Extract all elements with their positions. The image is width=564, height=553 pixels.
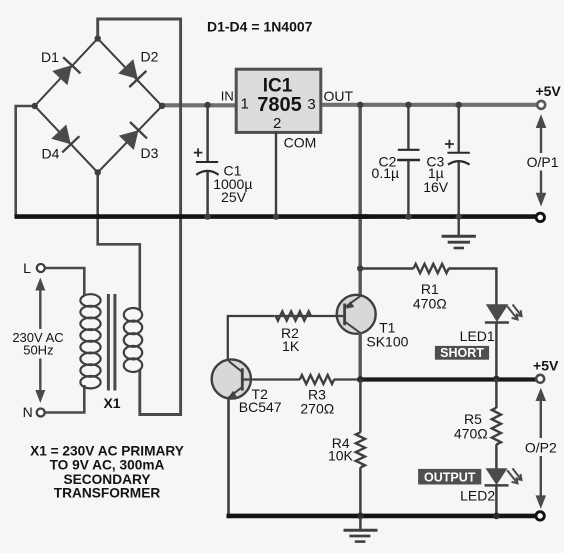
capacitor C1 [194,105,219,217]
svg-text:470Ω: 470Ω [454,426,488,442]
transformer X1 secondary winding [124,308,142,372]
svg-text:TRANSFORMER: TRANSFORMER [54,486,161,501]
terminal O/P2 +5V [536,375,544,383]
svg-text:LED2: LED2 [460,487,495,503]
svg-text:SK100: SK100 [366,334,408,350]
diode D2 [117,58,146,87]
label OUTPUT badge [418,469,481,485]
wire: R4 to bottom rail [359,468,362,517]
label R3 value [300,387,334,417]
wire: AC top from bridge top vertex to transformer line [98,19,181,415]
svg-text:X1: X1 [103,395,120,411]
svg-text:OUT: OUT [324,88,354,104]
svg-text:D4: D4 [42,146,60,162]
svg-text:1: 1 [241,96,249,113]
svg-text:10K: 10K [328,448,354,464]
node: T1 collector / R3 / R4 junction [357,376,364,383]
node: C3 top [456,102,462,108]
wire: O/P2 +5V rail [334,378,361,380]
svg-text:3: 3 [307,96,315,113]
wire: N to primary bottom [45,385,84,413]
wire: R2 left corner down to T2 [228,316,274,361]
node: C2 bottom [405,213,411,219]
svg-text:16V: 16V [423,179,449,195]
label C3 value [423,154,449,195]
arrow O/P1 [536,114,547,206]
node: C1 top [204,102,210,108]
node: C2 top [405,102,411,108]
svg-text:BC547: BC547 [239,399,282,415]
wire: R1 branch horizontal [360,267,413,270]
transformer X1 primary winding [80,294,100,388]
svg-text:COM: COM [284,135,317,151]
svg-text:TO 9V AC, 300mA: TO 9V AC, 300mA [50,458,165,473]
svg-text:IN: IN [221,89,234,104]
svg-text:X1 = 230V AC PRIMARY: X1 = 230V AC PRIMARY [30,443,184,458]
svg-text:LED1: LED1 [460,328,495,344]
label C1 value [213,163,252,206]
resistor R4 [356,432,365,467]
svg-text:1K: 1K [282,338,300,354]
svg-text:D3: D3 [141,145,159,161]
transformer X1 core [107,294,117,391]
wire: T2 emitter down to bottom rail [227,398,230,517]
wire: R4 junction down [359,380,362,433]
node: R4 bottom [357,513,364,520]
bridge rectifier diamond edges [35,39,162,173]
wire: L to primary top [45,268,84,296]
svg-text:D2: D2 [141,48,159,64]
node: bridge left vertex [32,103,38,109]
node: LED1 / R5 junction [493,376,500,383]
capacitor C2 [397,105,420,217]
label SHORT badge [435,346,489,360]
wire: T1 collector down to junction [359,333,362,380]
label 230V AC 50Hz [12,330,63,358]
svg-text:50Hz: 50Hz [23,343,53,358]
transistor T1 SK100 [337,295,376,334]
LED2 [485,468,522,485]
terminal O/P1 ground [536,213,544,221]
resistor R1 [414,264,449,273]
svg-text:O/P1: O/P1 [527,154,559,170]
diode D4 [50,123,79,152]
node: bridge bottom vertex [95,169,101,175]
wire: R1 to LED1 [448,269,496,305]
label R4 value [328,435,354,464]
ground below C3 [442,218,476,248]
svg-text:N: N [23,404,33,420]
resistor R2 [276,311,311,320]
svg-text:470Ω: 470Ω [413,296,447,312]
wire: bridge right vertex to IC1 IN pin [162,103,236,107]
svg-text:7805: 7805 [257,94,302,116]
svg-text:R5: R5 [464,411,482,427]
node: OUT junction [357,102,363,108]
node: bridge top vertex [95,35,101,41]
wire: bottom ground rail [227,514,537,519]
wire: T1 base to R2 to T2 collector [275,315,345,317]
wire: OUT rail down to T1 emitter (through ground rail crossing) [359,105,362,296]
arrow O/P2 [536,388,547,509]
resistor R3 [300,375,334,384]
label R5 value [454,411,488,442]
svg-text:0.1µ: 0.1µ [372,165,400,181]
svg-text:SHORT: SHORT [440,346,484,360]
label R2 value [281,325,300,354]
wire: bridge left vertex to ground rail [16,106,35,217]
IC1 7805 voltage regulator [236,69,321,132]
wire: IC1 OUT to +5V terminal O/P1 [321,103,537,107]
wire: LED2 to bottom rail [495,485,498,516]
label C2 value [372,154,400,182]
svg-text:2: 2 [273,115,281,132]
node: COM ground [273,213,279,219]
transistor T2 BC547 [212,359,251,398]
svg-text:25V: 25V [221,189,247,205]
wire: T2 base to R3 [242,378,300,380]
wire: bridge bottom vertex to transformer secondary top [98,173,140,311]
label X1 transformer description [30,443,184,500]
wire: ground rail [15,214,537,219]
terminal L [37,264,45,272]
diode D1 [51,57,80,86]
node: C3 bottom [456,213,462,219]
terminal N [37,409,45,417]
svg-text:D1-D4 = 1N4007: D1-D4 = 1N4007 [207,19,313,35]
ground below R4 [344,517,378,542]
svg-text:+5V: +5V [533,357,559,373]
LED1 [485,304,522,322]
wire: COM pin to ground rail [275,132,277,216]
capacitor C3 [445,105,470,217]
resistor R5 [492,379,501,469]
node: R1 branch junction [357,265,363,271]
node: LED2 bottom [493,513,500,520]
node: C1 bottom [204,213,210,219]
svg-text:D1: D1 [41,49,59,65]
diode D3 [118,122,147,151]
label T2 value [239,386,282,415]
label R1 value [413,281,447,312]
svg-text:O/P2: O/P2 [525,440,557,456]
svg-text:L: L [23,260,31,276]
wire: LED1 cathode to O/P2 rail [495,323,498,380]
terminal O/P2 ground [536,512,544,520]
svg-text:+5V: +5V [535,83,561,99]
label T1 value [366,319,408,349]
arrow 230V AC mains [35,278,45,404]
svg-text:OUTPUT: OUTPUT [424,471,476,485]
svg-text:270Ω: 270Ω [300,401,334,417]
terminal O/P1 +5V [537,101,545,109]
node: bridge right vertex [159,103,165,109]
